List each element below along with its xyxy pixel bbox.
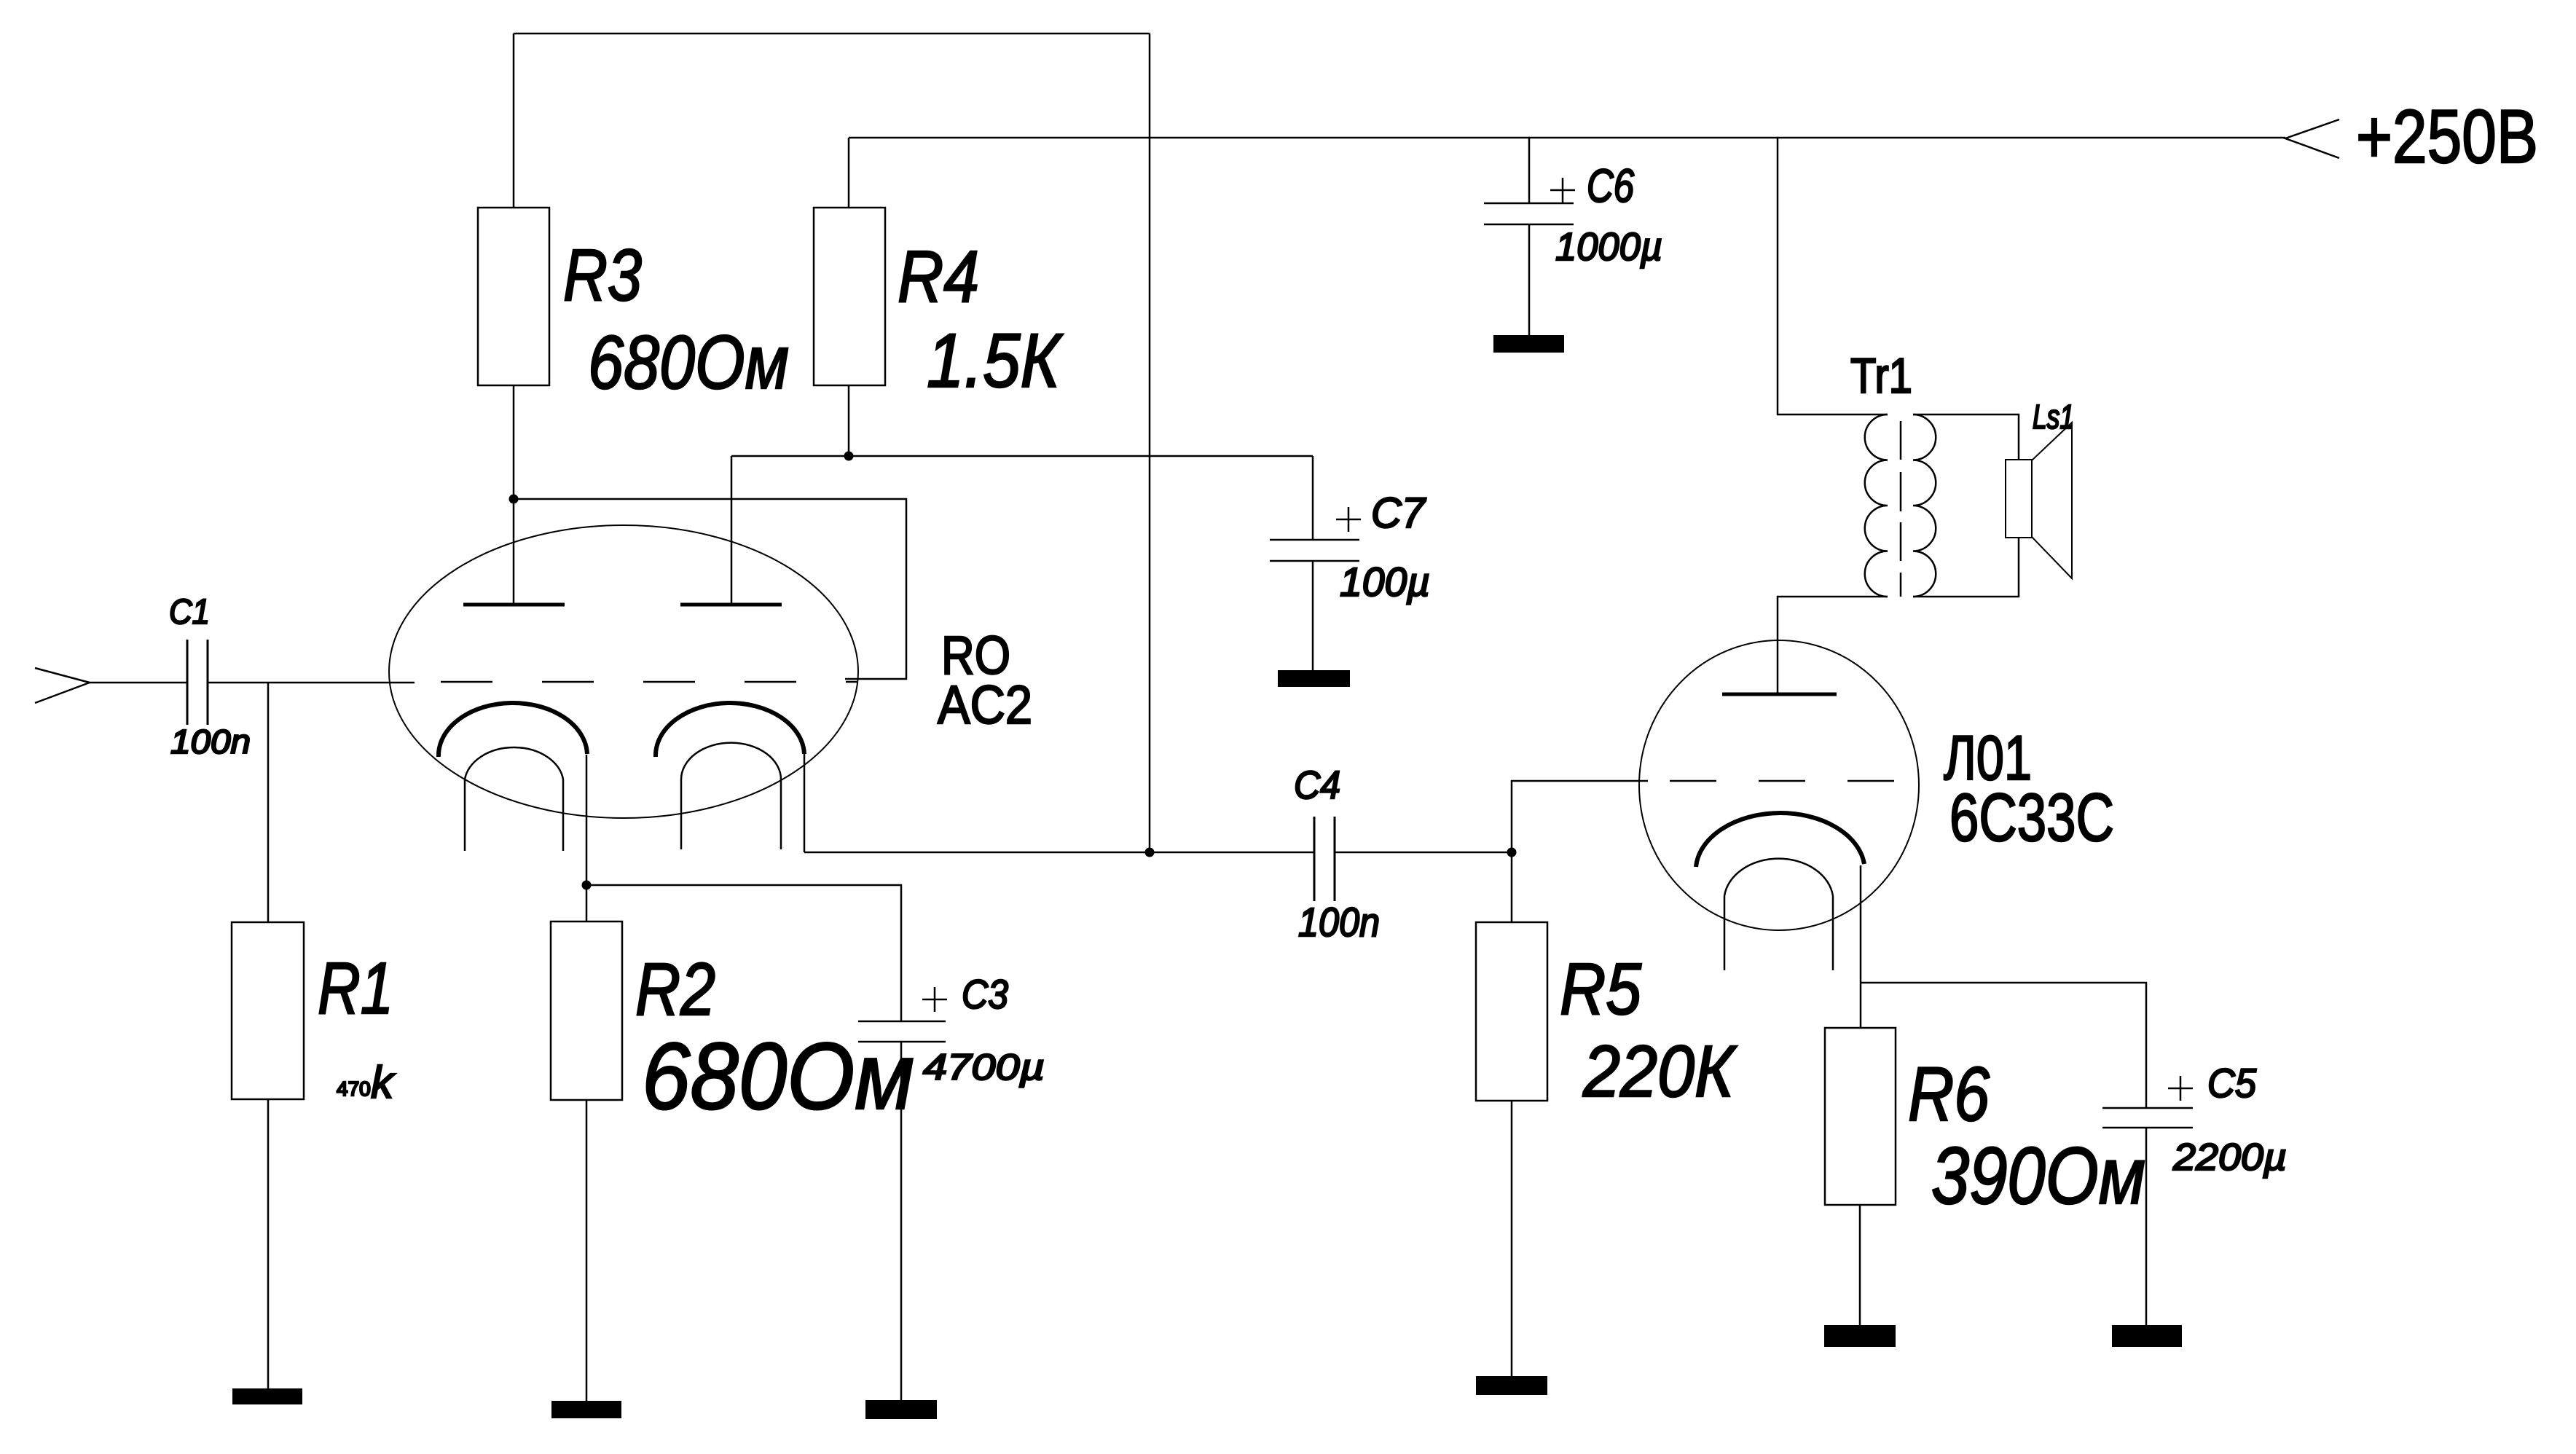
- svg-text:k: k: [371, 1058, 396, 1108]
- svg-text:C7: C7: [1371, 490, 1427, 537]
- wire Tr1 secondary bottom to Ls1: [1913, 538, 2019, 597]
- capacitor C7: [1270, 540, 1359, 561]
- wire R2 to ground: [586, 1100, 588, 1401]
- wire bootstrap (rail to cathode line): [1149, 34, 1151, 852]
- ground C5: [2112, 1325, 2182, 1347]
- capacitor C5: [2102, 1108, 2193, 1128]
- svg-text:220К: 220К: [1582, 1031, 1737, 1112]
- ground R1: [232, 1388, 302, 1404]
- tube V1 anode a: [463, 603, 565, 607]
- arrow +250V: [2285, 119, 2339, 158]
- svg-text:2200µ: 2200µ: [2172, 1136, 2287, 1179]
- svg-text:100µ: 100µ: [1340, 559, 1430, 605]
- svg-text:C5: C5: [2207, 1060, 2257, 1106]
- capacitor C6 lead from rail: [1528, 138, 1531, 203]
- wire R1 to ground: [267, 1099, 270, 1388]
- wire R3 top to rail: [513, 34, 515, 208]
- resistor R4: [814, 208, 885, 385]
- tube V1 cathode b: [656, 703, 804, 757]
- wire anode V1b to R4 and C7: [731, 455, 1313, 457]
- wire R3 to anode V1a: [513, 385, 515, 605]
- resistor R5: [1476, 922, 1547, 1101]
- svg-text:C6: C6: [1587, 160, 1634, 212]
- wire cathode V1a down: [586, 755, 588, 921]
- svg-text:1.5К: 1.5К: [927, 318, 1063, 404]
- svg-text:+250В: +250В: [2356, 95, 2538, 179]
- svg-text:R1: R1: [318, 948, 393, 1029]
- transformer Tr1 secondary: [1913, 414, 1936, 597]
- capacitor C6: [1484, 203, 1574, 224]
- tube V1 cathode a: [439, 703, 587, 757]
- svg-text:4700µ: 4700µ: [923, 1047, 1045, 1088]
- svg-text:R2: R2: [635, 948, 715, 1031]
- tube V1 grid (dashed): [441, 681, 857, 683]
- ground R6: [1824, 1325, 1896, 1347]
- svg-text:C1: C1: [169, 593, 210, 632]
- tube V1 heater b: [681, 743, 781, 849]
- svg-text:6С33С: 6С33С: [1949, 779, 2114, 855]
- tube V1 anode b: [680, 603, 782, 607]
- ground C6: [1493, 335, 1564, 353]
- resistor R6: [1825, 1028, 1896, 1205]
- svg-text:470: 470: [337, 1077, 371, 1100]
- svg-text:C4: C4: [1294, 763, 1340, 807]
- wire R5 to ground: [1511, 1101, 1513, 1376]
- svg-text:100n: 100n: [170, 723, 251, 761]
- tube V2 grid (dashed): [1644, 780, 1894, 782]
- svg-text:R6: R6: [1908, 1052, 1990, 1137]
- wire C7 to ground: [1312, 561, 1314, 670]
- svg-text:390Ом: 390Ом: [1931, 1131, 2145, 1221]
- tube V2 envelope: [1639, 640, 1919, 930]
- wire junction to R1: [267, 683, 270, 922]
- svg-text:R5: R5: [1560, 948, 1641, 1030]
- svg-text:AC2: AC2: [938, 675, 1032, 735]
- wire R6 to ground: [1859, 1205, 1861, 1325]
- tube V1 envelope: [389, 525, 858, 818]
- node bootstrap tap: [1145, 848, 1155, 857]
- node cathode V1a / R2: [582, 881, 592, 890]
- plus C5: [2168, 1076, 2193, 1101]
- svg-text:1000µ: 1000µ: [1555, 225, 1662, 269]
- wire C1 to tube V1 grid: [208, 682, 415, 684]
- plus C7: [1336, 507, 1361, 532]
- capacitor C4: [1314, 817, 1335, 901]
- wire R4 bottom: [848, 385, 850, 456]
- resistor R3: [478, 208, 549, 385]
- svg-text:100n: 100n: [1298, 899, 1380, 945]
- node R4 bottom: [844, 452, 854, 461]
- tube V2 anode: [1722, 693, 1837, 696]
- ground C3: [865, 1400, 937, 1419]
- speaker Ls1: [2006, 460, 2032, 538]
- svg-text:Ls1: Ls1: [2033, 398, 2074, 436]
- wire Tr1 secondary top to Ls1: [1913, 414, 2019, 460]
- plus C6: [1550, 178, 1575, 203]
- input arrow: [35, 668, 90, 703]
- wire cathode follower output (left of C4): [804, 852, 1314, 854]
- wire grid V2: [1512, 781, 1644, 852]
- plus C3: [922, 987, 947, 1012]
- wire C5 to ground: [2145, 1128, 2148, 1325]
- wire C4 to grid V2 (right of C4): [1335, 852, 1512, 854]
- transformer Tr1 core: [1900, 421, 1902, 597]
- tube V2 cathode: [1696, 813, 1864, 867]
- wire anode V1b up: [731, 456, 733, 605]
- wire C6 to ground: [1528, 224, 1531, 335]
- wire cathode junction to C3: [586, 885, 901, 1021]
- svg-text:C3: C3: [962, 971, 1008, 1017]
- wire cathode V1b down: [804, 754, 806, 852]
- svg-text:680Ом: 680Ом: [642, 1023, 914, 1129]
- wire Tr1 primary bottom to anode V2: [1778, 597, 1888, 694]
- svg-text:R3: R3: [563, 235, 642, 316]
- resistor R2: [551, 921, 622, 1100]
- capacitor C7 lead from line A: [1312, 456, 1314, 540]
- wire input to C1: [90, 682, 187, 684]
- tube V2 heater: [1724, 859, 1833, 970]
- svg-text:Tr1: Tr1: [1850, 348, 1912, 404]
- capacitor C1: [187, 640, 208, 725]
- wire C3 to ground: [900, 1042, 903, 1400]
- node grid V2 / R5: [1507, 848, 1517, 857]
- wire anode V1a to grid V1b (box): [514, 499, 906, 679]
- svg-text:R4: R4: [898, 236, 979, 318]
- tube V1 heater a: [465, 747, 563, 851]
- resistor R1: [232, 922, 304, 1099]
- wire cathode V2 to R6: [1860, 865, 1862, 1028]
- wire R4 top: [848, 138, 850, 208]
- ground C7: [1278, 670, 1350, 687]
- transformer Tr1 primary: [1865, 414, 1888, 597]
- ground R5: [1476, 1376, 1547, 1395]
- svg-text:680Ом: 680Ом: [588, 321, 789, 405]
- capacitor C3: [858, 1021, 946, 1042]
- node anode V1a: [509, 495, 519, 504]
- wire rail to Tr1 primary: [1778, 138, 1888, 414]
- wire cathode V2 to C5: [1861, 983, 2146, 1108]
- rail R3 to bootstrap: [514, 33, 1150, 35]
- wire R5 top: [1511, 852, 1513, 922]
- ground R2: [551, 1401, 621, 1418]
- rail +250V: [849, 137, 2285, 139]
